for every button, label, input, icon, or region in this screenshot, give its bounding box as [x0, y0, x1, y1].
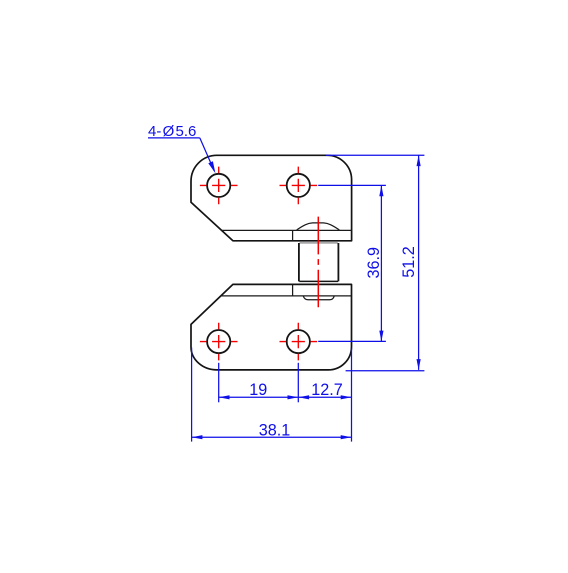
svg-text:51.2: 51.2 [400, 246, 418, 278]
svg-text:19: 19 [249, 381, 267, 399]
svg-text:36.9: 36.9 [365, 247, 383, 279]
svg-text:38.1: 38.1 [259, 421, 291, 439]
svg-text:4- Ø 5.6: 4- Ø 5.6 [148, 123, 196, 140]
svg-text:12.7: 12.7 [311, 381, 343, 399]
